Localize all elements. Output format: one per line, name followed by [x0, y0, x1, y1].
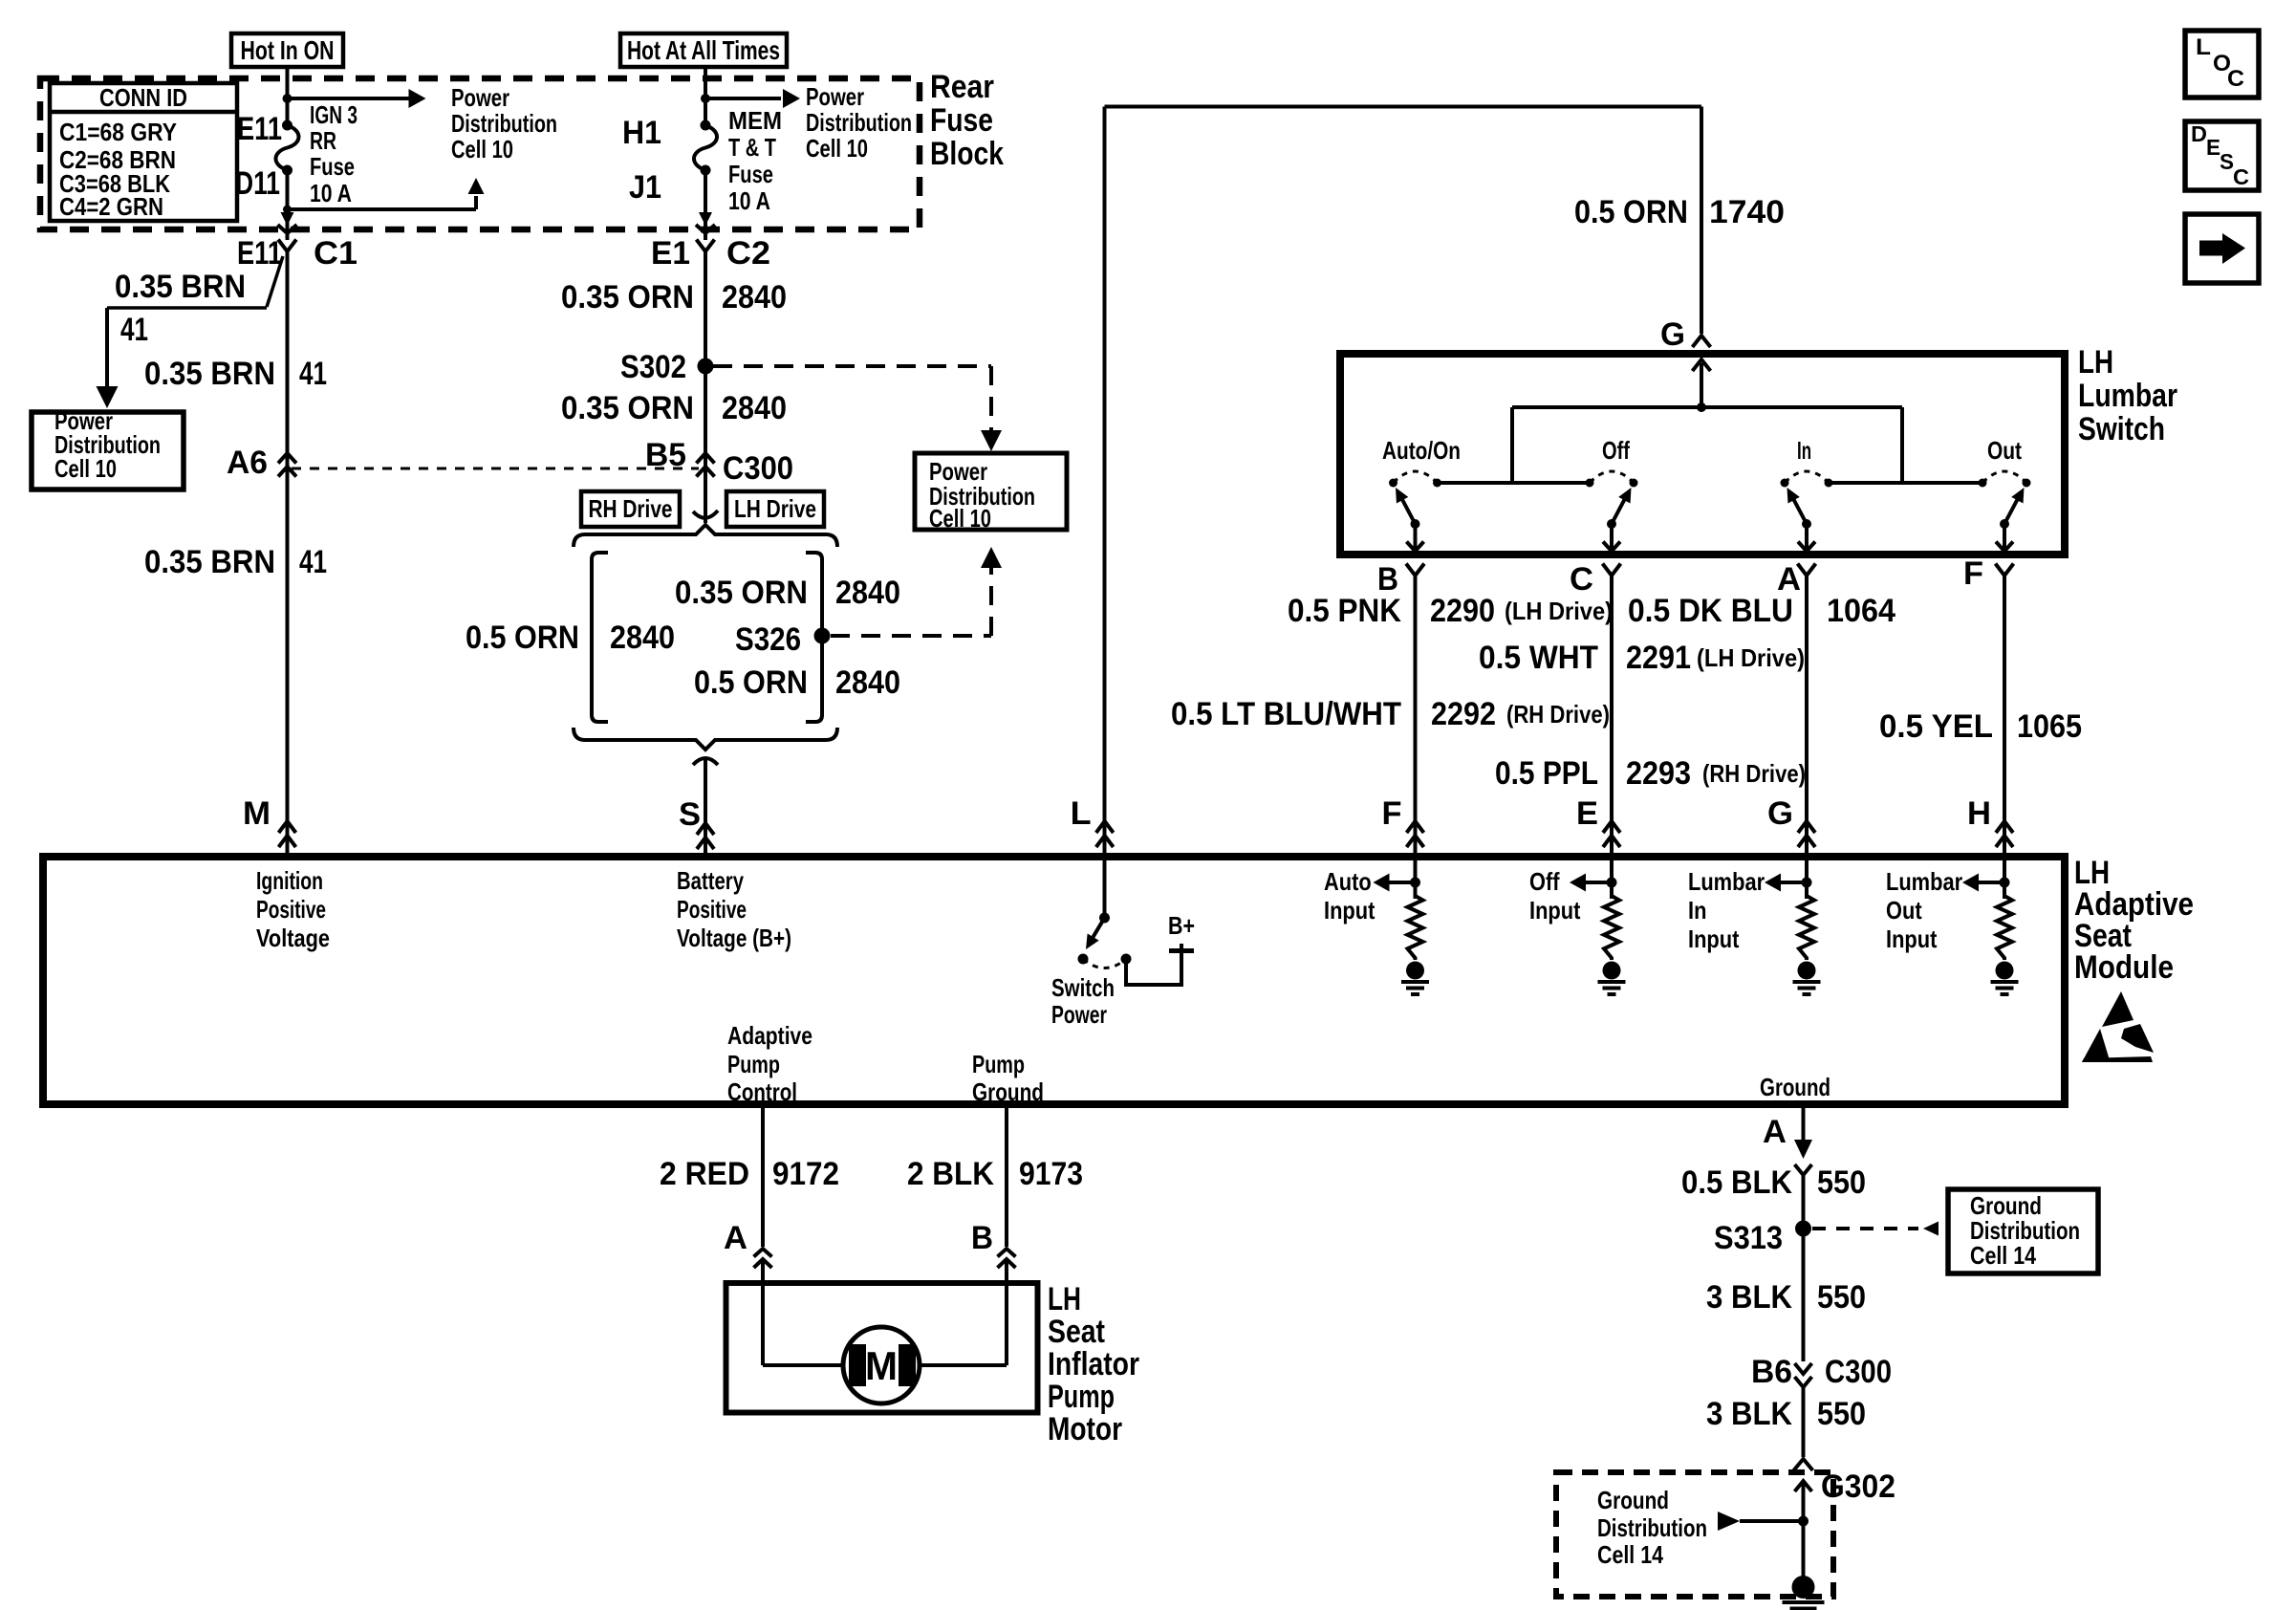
svg-text:2840: 2840 [835, 664, 900, 701]
svg-text:B: B [971, 1220, 993, 1256]
svg-text:1065: 1065 [2017, 708, 2082, 745]
svg-text:Out: Out [1886, 896, 1922, 925]
svg-text:S302: S302 [620, 349, 686, 385]
svg-text:Distribution: Distribution [1597, 1513, 1707, 1542]
svg-text:In: In [1797, 436, 1811, 465]
svg-text:Fuse: Fuse [310, 152, 355, 181]
svg-text:550: 550 [1817, 1164, 1866, 1201]
svg-text:2290: 2290 [1430, 593, 1495, 629]
svg-text:H1: H1 [622, 115, 661, 151]
svg-text:G: G [1660, 316, 1685, 353]
svg-text:A: A [724, 1220, 747, 1256]
svg-text:Motor: Motor [1048, 1411, 1122, 1447]
svg-text:10 A: 10 A [728, 186, 770, 215]
svg-text:G302: G302 [1821, 1469, 1895, 1505]
svg-text:Cell 10: Cell 10 [806, 134, 868, 163]
svg-text:G: G [1767, 795, 1793, 832]
svg-text:Control: Control [727, 1077, 797, 1106]
svg-text:Auto: Auto [1324, 867, 1372, 896]
svg-text:2293: 2293 [1626, 755, 1691, 792]
svg-text:B+: B+ [1168, 911, 1195, 940]
svg-text:0.5 ORN: 0.5 ORN [694, 664, 808, 701]
svg-text:B6: B6 [1751, 1354, 1792, 1390]
svg-text:0.5 LT BLU/WHT: 0.5 LT BLU/WHT [1171, 696, 1401, 732]
svg-text:In: In [1688, 896, 1706, 925]
svg-text:A: A [1763, 1114, 1787, 1150]
svg-text:C1: C1 [314, 235, 357, 272]
svg-text:RH Drive: RH Drive [589, 494, 673, 523]
svg-text:0.35 ORN: 0.35 ORN [561, 279, 694, 315]
svg-text:C4=2 GRN: C4=2 GRN [59, 192, 163, 221]
svg-text:0.5 ORN: 0.5 ORN [466, 620, 579, 656]
svg-text:41: 41 [299, 356, 327, 392]
svg-text:2840: 2840 [722, 390, 787, 426]
svg-text:0.5 PNK: 0.5 PNK [1288, 593, 1401, 629]
svg-text:0.5 WHT: 0.5 WHT [1479, 640, 1598, 676]
svg-text:Pump: Pump [1048, 1379, 1115, 1415]
svg-text:Cell 10: Cell 10 [929, 504, 991, 533]
svg-text:C: C [2227, 66, 2244, 92]
svg-text:E: E [2206, 135, 2220, 160]
svg-text:0.35 BRN: 0.35 BRN [144, 544, 275, 580]
svg-text:0.35 BRN: 0.35 BRN [144, 356, 275, 392]
svg-text:C1=68 GRY: C1=68 GRY [59, 118, 177, 146]
svg-text:Hot At All Times: Hot At All Times [627, 35, 780, 65]
svg-text:MEM: MEM [728, 106, 782, 135]
svg-text:LH: LH [1048, 1281, 1081, 1317]
svg-text:41: 41 [120, 312, 148, 348]
svg-text:Ignition: Ignition [256, 866, 323, 895]
svg-text:Inflator: Inflator [1048, 1346, 1139, 1382]
svg-text:2840: 2840 [722, 279, 787, 315]
svg-text:Cell 14: Cell 14 [1970, 1241, 2036, 1270]
svg-text:Out: Out [1987, 436, 2022, 465]
svg-text:S: S [2220, 149, 2234, 174]
svg-text:550: 550 [1817, 1279, 1866, 1316]
svg-text:A6: A6 [227, 445, 268, 481]
svg-text:Input: Input [1886, 925, 1938, 953]
svg-text:(LH Drive): (LH Drive) [1697, 643, 1805, 672]
svg-text:LH: LH [2078, 344, 2113, 381]
svg-text:Off: Off [1529, 867, 1560, 896]
svg-text:41: 41 [299, 544, 327, 580]
svg-text:F: F [1963, 555, 1983, 592]
svg-text:550: 550 [1817, 1396, 1866, 1432]
svg-text:2291: 2291 [1626, 640, 1691, 676]
svg-text:T & T: T & T [728, 133, 776, 162]
svg-text:D: D [2191, 121, 2207, 146]
svg-text:0.5 BLK: 0.5 BLK [1681, 1164, 1792, 1201]
svg-text:0.5 ORN: 0.5 ORN [1574, 194, 1688, 230]
svg-text:J1: J1 [629, 169, 661, 206]
svg-text:Lumbar: Lumbar [2078, 378, 2177, 414]
svg-text:Switch: Switch [2078, 411, 2165, 447]
svg-text:Switch: Switch [1051, 973, 1115, 1002]
svg-text:Input: Input [1529, 896, 1581, 925]
svg-text:Fuse: Fuse [728, 160, 773, 188]
svg-text:Pump: Pump [972, 1050, 1025, 1078]
svg-text:Off: Off [1602, 436, 1630, 465]
svg-text:IGN 3: IGN 3 [310, 100, 357, 129]
svg-text:3 BLK: 3 BLK [1706, 1396, 1792, 1432]
svg-text:C: C [2233, 164, 2249, 189]
svg-text:RR: RR [310, 126, 336, 155]
svg-text:S326: S326 [735, 621, 801, 658]
svg-text:E1: E1 [651, 235, 690, 272]
svg-text:2292: 2292 [1431, 696, 1496, 732]
svg-text:Power: Power [1051, 1000, 1107, 1029]
svg-text:Voltage: Voltage [256, 924, 330, 952]
svg-text:Distribution: Distribution [451, 109, 557, 138]
svg-text:C300: C300 [723, 450, 793, 487]
svg-text:0.5 PPL: 0.5 PPL [1495, 755, 1598, 792]
svg-text:0.35 ORN: 0.35 ORN [675, 575, 808, 611]
svg-text:9172: 9172 [772, 1156, 839, 1192]
svg-text:Auto/On: Auto/On [1382, 436, 1461, 465]
svg-text:Distribution: Distribution [806, 108, 912, 137]
svg-text:2 RED: 2 RED [660, 1156, 749, 1192]
svg-text:S: S [679, 796, 701, 833]
svg-text:Power: Power [451, 83, 509, 112]
svg-text:C2: C2 [726, 235, 770, 272]
svg-text:Positive: Positive [677, 895, 747, 924]
svg-text:Ground: Ground [972, 1077, 1044, 1106]
svg-text:0.35 BRN: 0.35 BRN [115, 269, 246, 305]
svg-text:Module: Module [2074, 949, 2174, 986]
svg-text:M: M [865, 1343, 898, 1388]
svg-text:(RH Drive): (RH Drive) [1702, 759, 1806, 788]
svg-text:M: M [243, 795, 271, 832]
svg-text:Cell 14: Cell 14 [1597, 1540, 1663, 1569]
svg-text:H: H [1967, 795, 1991, 832]
svg-text:Cell 10: Cell 10 [54, 454, 117, 483]
svg-text:CONN ID: CONN ID [99, 83, 187, 112]
svg-text:F: F [1382, 795, 1402, 832]
svg-text:Hot In ON: Hot In ON [241, 35, 335, 65]
svg-text:C300: C300 [1825, 1354, 1892, 1390]
svg-text:Voltage (B+): Voltage (B+) [677, 924, 791, 952]
svg-text:Ground: Ground [1597, 1486, 1669, 1514]
svg-text:Lumbar: Lumbar [1688, 867, 1765, 896]
svg-text:0.5 YEL: 0.5 YEL [1879, 708, 1993, 745]
svg-text:1740: 1740 [1709, 194, 1785, 230]
svg-text:B5: B5 [645, 437, 686, 473]
svg-text:Power: Power [806, 82, 864, 111]
svg-text:10 A: 10 A [310, 179, 352, 207]
svg-text:E: E [1576, 795, 1598, 832]
svg-text:Positive: Positive [256, 895, 326, 924]
svg-text:S313: S313 [1714, 1220, 1783, 1256]
svg-text:Pump: Pump [727, 1050, 780, 1078]
svg-text:Cell 10: Cell 10 [451, 135, 513, 163]
svg-text:0.5 DK BLU: 0.5 DK BLU [1628, 593, 1793, 629]
svg-text:Input: Input [1324, 896, 1375, 925]
svg-text:E11: E11 [237, 111, 282, 147]
svg-text:Rear: Rear [930, 69, 994, 105]
svg-text:2 BLK: 2 BLK [907, 1156, 994, 1192]
svg-text:2840: 2840 [835, 575, 900, 611]
svg-text:Fuse: Fuse [930, 102, 993, 139]
svg-text:Battery: Battery [677, 866, 744, 895]
svg-text:L: L [1071, 795, 1092, 832]
svg-text:LH Drive: LH Drive [734, 494, 816, 523]
svg-text:E11: E11 [237, 235, 282, 272]
svg-text:9173: 9173 [1019, 1156, 1083, 1192]
svg-text:(LH Drive): (LH Drive) [1505, 597, 1613, 625]
svg-text:Ground: Ground [1760, 1073, 1830, 1101]
svg-text:Seat: Seat [1048, 1314, 1105, 1350]
svg-text:Adaptive: Adaptive [727, 1021, 812, 1050]
svg-text:2840: 2840 [610, 620, 675, 656]
svg-text:3 BLK: 3 BLK [1706, 1279, 1792, 1316]
svg-text:(RH Drive): (RH Drive) [1506, 700, 1610, 729]
svg-text:Lumbar: Lumbar [1886, 867, 1962, 896]
svg-text:D11: D11 [235, 165, 280, 202]
svg-text:Input: Input [1688, 925, 1740, 953]
svg-text:C: C [1570, 561, 1593, 598]
svg-text:L: L [2196, 34, 2211, 60]
svg-text:1064: 1064 [1827, 593, 1895, 629]
svg-text:Block: Block [930, 136, 1004, 172]
svg-text:0.35 ORN: 0.35 ORN [561, 390, 694, 426]
